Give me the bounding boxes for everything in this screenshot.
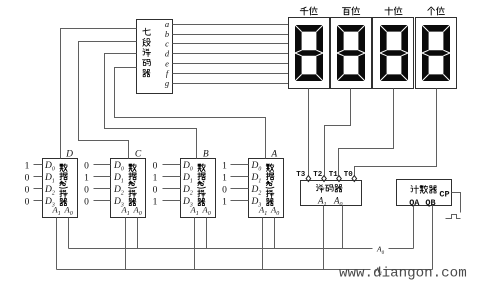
svg-text:1: 1 xyxy=(222,161,227,171)
svg-text:T3: T3 xyxy=(296,171,306,179)
svg-text:0: 0 xyxy=(25,173,30,183)
svg-text:e: e xyxy=(165,58,169,68)
svg-text:www.diangon.com: www.diangon.com xyxy=(339,266,467,282)
svg-text:1: 1 xyxy=(222,173,227,183)
svg-text:T1: T1 xyxy=(329,171,339,179)
svg-text:1: 1 xyxy=(25,161,30,171)
svg-text:B: B xyxy=(203,150,209,160)
svg-text:QB: QB xyxy=(425,198,435,208)
svg-text:0: 0 xyxy=(84,185,89,195)
svg-text:0: 0 xyxy=(84,161,89,171)
svg-text:1: 1 xyxy=(84,173,89,183)
svg-text:0: 0 xyxy=(25,197,30,207)
svg-text:1: 1 xyxy=(153,197,158,207)
svg-text:QA: QA xyxy=(409,198,420,208)
svg-text:CP: CP xyxy=(439,190,449,200)
svg-text:a: a xyxy=(165,19,169,29)
svg-text:C: C xyxy=(135,150,142,160)
svg-text:0: 0 xyxy=(222,185,227,195)
svg-text:D: D xyxy=(65,150,73,160)
svg-text:b: b xyxy=(165,29,169,39)
svg-text:c: c xyxy=(165,39,169,49)
svg-text:0: 0 xyxy=(84,197,89,207)
svg-text:0: 0 xyxy=(25,185,30,195)
svg-text:g: g xyxy=(165,78,169,88)
svg-text:0: 0 xyxy=(153,185,158,195)
svg-text:A: A xyxy=(270,150,277,160)
svg-text:T2: T2 xyxy=(313,171,323,179)
svg-text:1: 1 xyxy=(222,197,227,207)
svg-text:1: 1 xyxy=(153,173,158,183)
svg-text:0: 0 xyxy=(153,161,158,171)
svg-text:T0: T0 xyxy=(344,171,354,179)
